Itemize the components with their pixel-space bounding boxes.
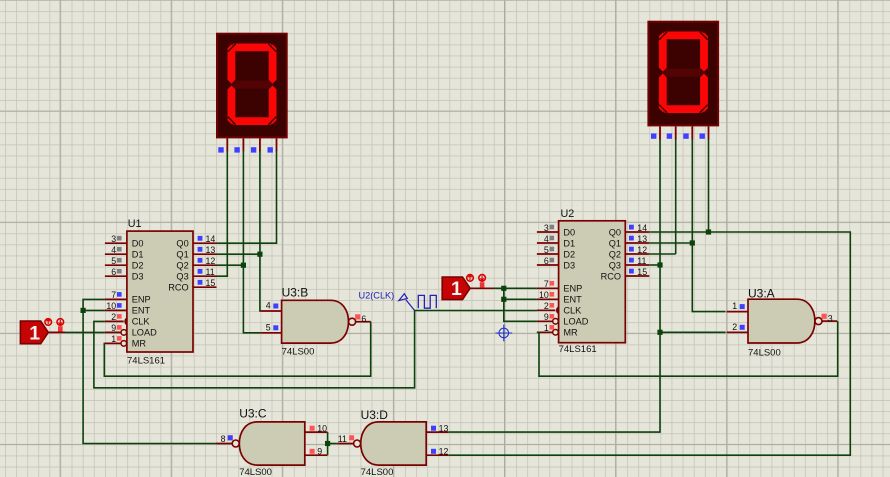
U2 data pins D0-D3 (3,4,5,6): [537, 223, 575, 270]
junction U2.Q0/DISP2 pin4: [706, 229, 711, 234]
7-segment display DISP1 (tens): [217, 34, 287, 138]
wire tie U3:C inputs 10,9: [327, 432, 329, 455]
svg-text:14: 14: [206, 234, 216, 244]
junction U1.Q1/DISP1 pin3: [257, 252, 262, 257]
wire net U1.Q3 to DISP1 pin1: [217, 151, 228, 276]
wire DISP2 pin3 down to U3:A input 1: [692, 139, 725, 311]
svg-text:15: 15: [637, 267, 647, 277]
svg-text:Q3: Q3: [176, 272, 188, 282]
junction U2.ENT tie: [501, 297, 506, 302]
svg-text:11: 11: [338, 434, 347, 444]
U2 control pins ENP,ENT,CLK,LOAD,MR (7,10,2,9,1): [537, 279, 589, 338]
svg-text:9: 9: [111, 323, 116, 333]
wire net U1.Q1 row: [217, 253, 260, 255]
svg-text:15: 15: [206, 278, 216, 288]
svg-text:74LS161: 74LS161: [127, 356, 165, 367]
junction U2.Q1/DISP2 pin3: [690, 240, 695, 245]
svg-text:MR: MR: [132, 339, 147, 349]
svg-text:12: 12: [206, 256, 216, 266]
svg-text:5: 5: [266, 322, 271, 332]
svg-text:10: 10: [106, 301, 116, 311]
svg-text:D3: D3: [132, 272, 144, 282]
svg-text:3: 3: [828, 314, 833, 324]
svg-text:D1: D1: [563, 238, 575, 248]
svg-text:5: 5: [111, 256, 116, 266]
svg-text:74LS00: 74LS00: [748, 348, 781, 359]
junction U1.ENT tie: [81, 308, 86, 313]
svg-text:Q0: Q0: [176, 239, 188, 249]
svg-text:D3: D3: [563, 260, 575, 270]
svg-text:Q3: Q3: [609, 260, 621, 270]
U2 output pins Q0-Q3,RCO (14,13,12,11,15): [601, 223, 650, 281]
svg-text:MR: MR: [563, 328, 578, 338]
NAND gate U3:D (74LS00, mirrored): [337, 408, 449, 477]
wire tie vertical to U2.ENT and U2.LOAD: [504, 288, 537, 321]
svg-text:12: 12: [637, 245, 647, 255]
wire net U1.Q2 row: [217, 264, 244, 266]
svg-text:74LS161: 74LS161: [559, 344, 597, 355]
wire clock net: U1.CLK - DCLOCK - U2.CLK: [94, 311, 537, 388]
svg-text:11: 11: [206, 267, 215, 277]
svg-text:U3:A: U3:A: [748, 287, 775, 301]
svg-text:10: 10: [317, 424, 327, 434]
svg-text:74LS00: 74LS00: [361, 467, 394, 477]
svg-text:7: 7: [111, 290, 116, 300]
svg-text:5: 5: [544, 245, 549, 255]
svg-text:4: 4: [111, 245, 116, 255]
clock generator U2(CLK) DCLOCK symbol: [359, 291, 437, 311]
svg-text:D1: D1: [132, 250, 144, 260]
svg-text:Q1: Q1: [609, 238, 621, 248]
svg-text:1: 1: [544, 323, 549, 333]
svg-text:2: 2: [544, 301, 549, 311]
svg-text:CLK: CLK: [563, 306, 582, 316]
svg-text:13: 13: [439, 424, 449, 434]
junction U3:A.2 tie: [657, 330, 662, 335]
svg-text:6: 6: [544, 256, 549, 266]
wire net U2.Q1 row: [649, 242, 692, 244]
svg-text:9: 9: [317, 447, 322, 457]
U1 data pins D0-D3 (3,4,5,6): [105, 234, 144, 282]
NAND gate U3:C (74LS00, mirrored): [216, 407, 328, 477]
svg-text:ENT: ENT: [132, 306, 151, 316]
svg-text:1: 1: [451, 278, 462, 300]
svg-text:3: 3: [111, 234, 116, 244]
wire net U2.Q0: to DISP2 pin4 and U3:D.12: [449, 232, 851, 455]
junction U2.ENP tie: [501, 286, 506, 291]
svg-text:D0: D0: [132, 239, 144, 249]
junction U3:C input tie: [325, 441, 330, 446]
svg-text:9: 9: [544, 312, 549, 322]
wire DISP1 pin3 down to U3:B input 4: [259, 151, 261, 311]
svg-text:3: 3: [544, 223, 549, 233]
wire net U1.Q0 to DISP1 pin4: [217, 151, 277, 243]
wire U1.ENT branch: [83, 309, 105, 311]
svg-text:2: 2: [111, 312, 116, 322]
wire LOGICSTATE1 to U1.LOAD: [65, 331, 105, 333]
wire net U2.Q2 row: [649, 253, 675, 255]
NAND gate U3:B (74LS00): [260, 286, 371, 358]
svg-text:1: 1: [29, 322, 40, 344]
svg-text:74LS00: 74LS00: [282, 347, 315, 358]
svg-text:Q0: Q0: [609, 227, 621, 237]
svg-text:D2: D2: [132, 261, 144, 271]
svg-text:4: 4: [266, 301, 271, 311]
svg-text:RCO: RCO: [601, 271, 621, 281]
wire DISP2 pin1 down to U3:D input 13: [449, 139, 660, 432]
logic state source 1 (U1.LOAD): [20, 319, 65, 345]
svg-text:D2: D2: [563, 249, 575, 259]
svg-text:ENP: ENP: [563, 284, 582, 294]
svg-text:U3:C: U3:C: [239, 407, 267, 421]
svg-text:RCO: RCO: [168, 283, 188, 293]
svg-text:74LS00: 74LS00: [239, 467, 272, 477]
wire U3:A.3 to U2.MR and down: [537, 321, 838, 376]
svg-text:Q2: Q2: [609, 249, 621, 259]
svg-text:12: 12: [439, 447, 449, 457]
display DISP2 pins (red stubs + state squares): [651, 126, 709, 139]
7-segment display DISP2 (units): [648, 22, 718, 126]
svg-text:U1: U1: [128, 218, 142, 230]
wire U3:B.6 to U1.MR: [104, 322, 370, 377]
wire DISP1 pin2 down to U3:B input 5: [243, 151, 260, 333]
NAND gate U3:A (74LS00): [727, 287, 838, 359]
display DISP1 pins (red stubs + state squares): [218, 138, 276, 152]
junction U2.Q3/DISP2 pin1: [657, 262, 662, 267]
svg-text:4: 4: [544, 234, 549, 244]
svg-text:11: 11: [637, 256, 646, 266]
svg-text:Q2: Q2: [176, 261, 188, 271]
wire U3:C.8 to U1.ENP/ENT: [83, 299, 216, 443]
counter U1 74LS161 body: [127, 218, 193, 367]
U3:C output pin 8 state square (blue): [228, 435, 233, 440]
svg-text:D0: D0: [563, 227, 575, 237]
svg-text:6: 6: [111, 267, 116, 277]
svg-text:2: 2: [732, 322, 737, 332]
svg-text:U2(CLK): U2(CLK): [359, 291, 395, 301]
wire net U2.Q3 row: [649, 264, 660, 266]
svg-text:13: 13: [637, 234, 647, 244]
svg-text:Q1: Q1: [176, 250, 188, 260]
svg-text:U3:D: U3:D: [361, 408, 389, 422]
origin marker crosshair: [495, 325, 512, 342]
counter U2 74LS161 body: [559, 208, 626, 355]
wire U2.ENT branch: [504, 298, 537, 300]
svg-text:8: 8: [221, 434, 226, 444]
svg-text:6: 6: [361, 314, 366, 324]
svg-text:13: 13: [206, 245, 216, 255]
svg-text:14: 14: [637, 223, 647, 233]
svg-text:U3:B: U3:B: [282, 286, 309, 300]
wire branch to U3:A input 2: [660, 331, 726, 333]
svg-text:7: 7: [544, 279, 549, 289]
wire DISP2 pin2 vertical: [675, 139, 677, 254]
U1 output pins Q0-Q3,RCO (14,13,12,11,15): [168, 234, 216, 293]
wire U3:D.11 to U3:C inputs: [328, 443, 337, 445]
svg-text:CLK: CLK: [132, 317, 151, 327]
svg-text:10: 10: [539, 290, 549, 300]
wire LOGICSTATE2 to U2.ENP: [494, 287, 537, 289]
wire DISP2 pin4 vertical: [708, 139, 710, 232]
svg-text:ENP: ENP: [132, 295, 151, 305]
svg-text:LOAD: LOAD: [132, 328, 157, 338]
svg-text:ENT: ENT: [563, 295, 582, 305]
U1 control pins ENP,ENT,CLK,LOAD,MR (7,10,2,9,1): [105, 290, 157, 349]
junction U1.Q2/DISP1 pin2: [241, 263, 246, 268]
svg-text:1: 1: [111, 334, 116, 344]
svg-text:LOAD: LOAD: [563, 317, 588, 327]
logic state source 2 (U2.ENP/ENT/LOAD): [442, 275, 493, 301]
svg-text:1: 1: [732, 301, 737, 311]
svg-text:U2: U2: [561, 208, 575, 220]
